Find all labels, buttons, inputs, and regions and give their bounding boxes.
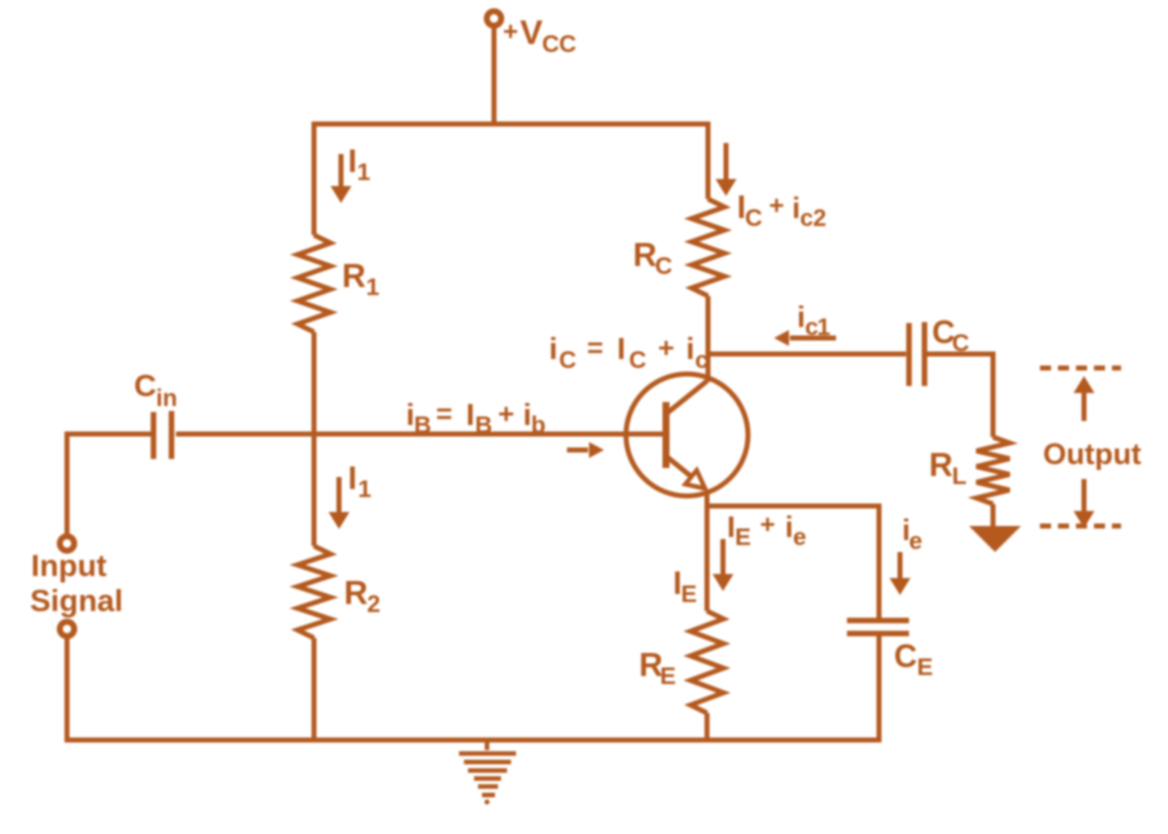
svg-text:R: R xyxy=(929,446,953,483)
svg-text:1: 1 xyxy=(357,159,370,186)
svg-text:C: C xyxy=(629,347,646,374)
svg-text:Signal: Signal xyxy=(30,583,123,618)
svg-text:+: + xyxy=(760,509,775,539)
svg-text:Output: Output xyxy=(1043,438,1141,471)
svg-text:+: + xyxy=(503,16,518,46)
svg-text:L: L xyxy=(952,463,967,490)
svg-text:b: b xyxy=(531,412,546,439)
svg-text:I: I xyxy=(348,460,357,496)
svg-text:2: 2 xyxy=(813,205,826,232)
svg-text:V: V xyxy=(520,14,543,52)
svg-text:+: + xyxy=(658,332,674,363)
svg-text:+: + xyxy=(769,190,784,220)
svg-text:Input: Input xyxy=(31,548,107,583)
svg-text:C: C xyxy=(894,638,917,674)
svg-text:=: = xyxy=(436,398,452,429)
svg-text:I: I xyxy=(348,143,357,179)
svg-text:in: in xyxy=(156,385,177,412)
svg-text:E: E xyxy=(660,663,676,690)
svg-text:i: i xyxy=(686,331,695,366)
svg-text:1: 1 xyxy=(358,476,371,503)
svg-text:2: 2 xyxy=(367,591,380,618)
svg-text:C: C xyxy=(745,205,762,232)
svg-text:e: e xyxy=(909,528,922,555)
svg-text:B: B xyxy=(414,412,431,439)
svg-text:e: e xyxy=(793,524,806,551)
svg-text:C: C xyxy=(559,347,576,374)
svg-text:R: R xyxy=(344,574,368,611)
svg-text:1: 1 xyxy=(817,314,830,341)
svg-text:C: C xyxy=(655,253,672,280)
svg-text:E: E xyxy=(681,581,697,608)
svg-text:C: C xyxy=(134,368,156,403)
svg-text:c: c xyxy=(695,347,708,374)
svg-text:C: C xyxy=(559,31,576,58)
svg-text:c: c xyxy=(800,205,813,232)
svg-text:I: I xyxy=(466,397,475,432)
svg-text:1: 1 xyxy=(366,274,379,301)
svg-text:B: B xyxy=(475,412,492,439)
svg-text:i: i xyxy=(549,331,558,366)
svg-text:I: I xyxy=(617,331,626,366)
svg-text:C: C xyxy=(952,330,969,357)
svg-text:R: R xyxy=(342,257,366,294)
svg-text:=: = xyxy=(587,332,603,363)
svg-text:E: E xyxy=(917,654,933,681)
svg-text:E: E xyxy=(735,524,751,551)
svg-text:+: + xyxy=(498,398,514,429)
svg-text:C: C xyxy=(542,31,559,58)
svg-text:R: R xyxy=(633,236,657,273)
